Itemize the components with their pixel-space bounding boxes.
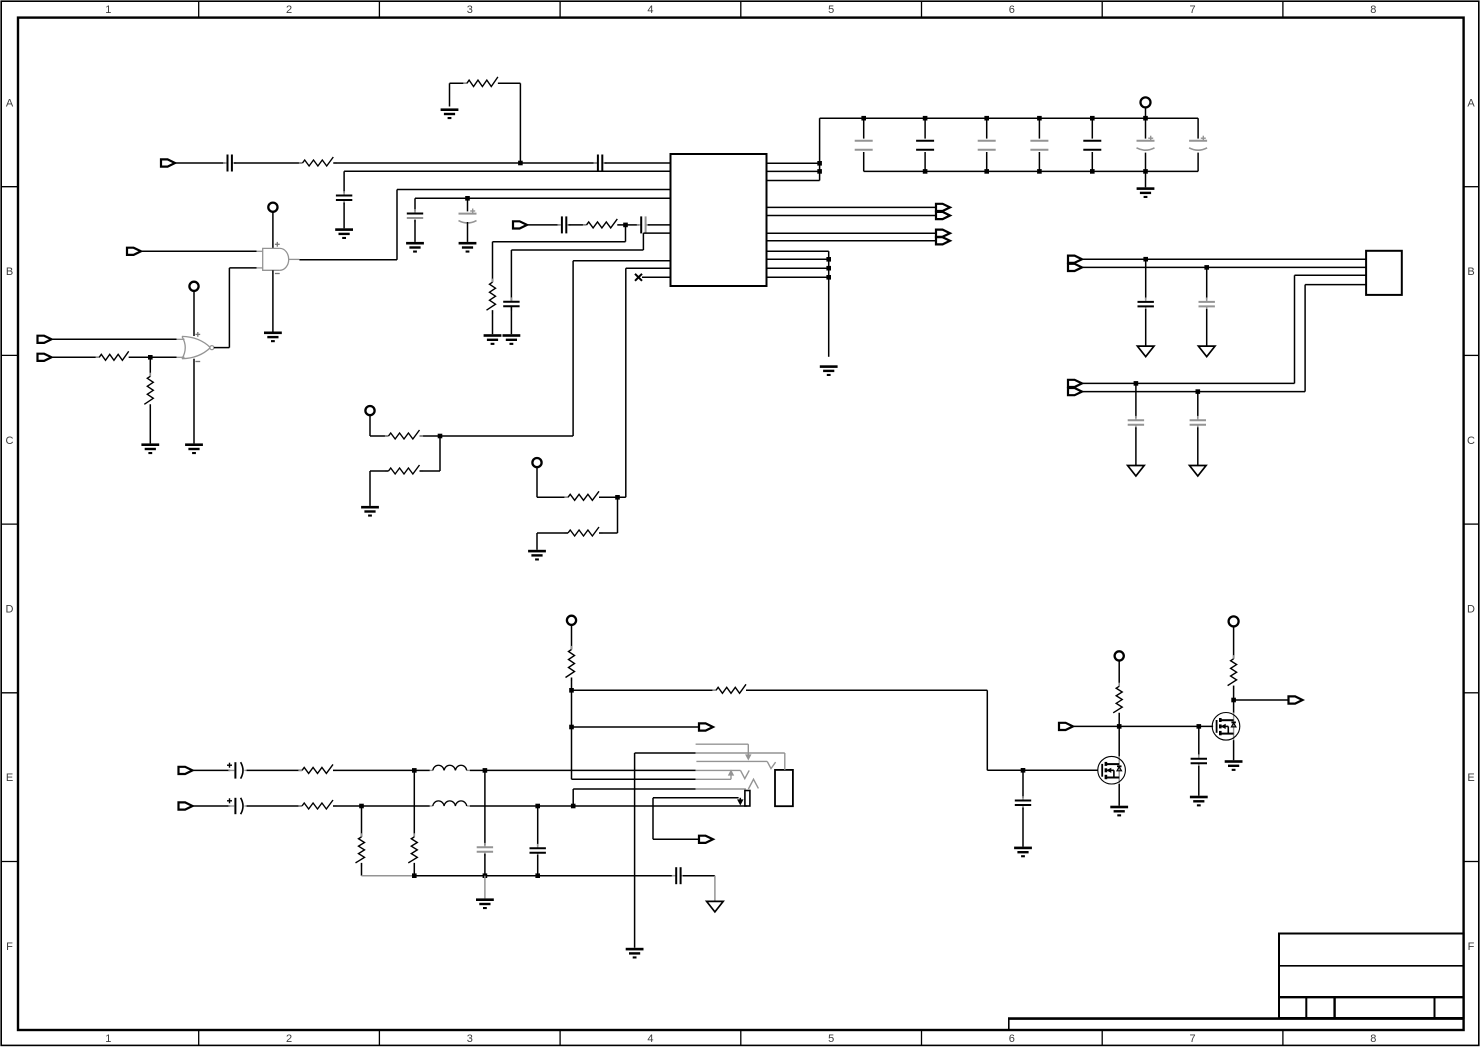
wire P2 to comparator A2	[193, 291, 195, 336]
wire L1 to jack tip	[470, 769, 696, 771]
ground under bypass rail	[1137, 187, 1155, 198]
wire C7 to U1	[648, 224, 671, 226]
wire C18 to ground	[1135, 427, 1137, 465]
capacitor C26	[1191, 754, 1207, 767]
IC U1 main codec box	[671, 154, 767, 286]
jack tip pin arrow	[696, 771, 734, 780]
ground under M1	[1110, 806, 1128, 817]
wire M2 source to ground	[1233, 740, 1235, 760]
bypass capacitor C13	[1083, 116, 1101, 174]
bypass top rail	[820, 117, 1199, 119]
power port P4	[532, 458, 541, 467]
wire P7 to R17	[1118, 661, 1120, 687]
wire node G down	[1145, 259, 1147, 299]
wire C21 to R12	[247, 805, 302, 807]
wire node O down	[571, 690, 573, 727]
wire C23 to rail	[537, 855, 539, 876]
polarized capacitor C20	[227, 762, 247, 778]
polarized capacitor C21	[227, 798, 247, 814]
bypass capacitor C10	[916, 116, 934, 174]
wire node K down	[413, 770, 415, 837]
rail junction dots	[817, 161, 822, 174]
svg-text:D: D	[6, 603, 14, 615]
node C junction	[623, 223, 628, 228]
wire detect to port J17	[653, 798, 699, 840]
inductor L2	[430, 801, 470, 806]
node F junction	[615, 495, 620, 500]
wire R9 to node F	[599, 496, 626, 498]
ground under R8	[361, 506, 379, 517]
node D junction	[148, 355, 153, 360]
capacitor C3	[336, 191, 352, 204]
capacitor C22	[477, 843, 493, 856]
resistor R17	[1113, 683, 1122, 717]
port J15 input	[179, 802, 193, 809]
svg-text:D: D	[1467, 603, 1475, 615]
wire C22 to rail	[484, 854, 486, 876]
resistor R5	[96, 351, 133, 360]
ground under C25	[1014, 847, 1032, 858]
svg-text:2: 2	[286, 1033, 292, 1045]
polarized capacitor C5	[459, 209, 477, 224]
wire J1 to C1	[175, 162, 225, 164]
wire U1 to port J7	[767, 215, 937, 217]
wire U1 pin F	[511, 233, 670, 302]
port J11 output	[1068, 264, 1082, 271]
triangle ground C19	[1190, 466, 1207, 477]
wire node N down	[537, 806, 539, 846]
resistor R11	[298, 764, 336, 773]
power port P2	[189, 282, 198, 291]
wire X1 pin3	[1082, 275, 1366, 383]
wire C6 to R3	[568, 224, 586, 226]
node K junction	[412, 768, 417, 773]
wire A1 to ground	[272, 270, 274, 331]
wire node I down	[1135, 383, 1137, 417]
wire node P to port J16	[572, 726, 700, 728]
resistor R10	[564, 527, 602, 536]
wire R16 to M1 gate	[746, 690, 1098, 770]
port J17 output	[699, 836, 713, 843]
wire C3 to ground	[343, 203, 345, 229]
resistor R16	[712, 684, 749, 693]
ground under R10	[528, 550, 546, 561]
svg-text:3: 3	[467, 1033, 473, 1045]
port J16 output	[699, 723, 713, 730]
jack sleeve contact	[696, 744, 751, 759]
wire A2 output	[214, 347, 230, 349]
svg-text:6: 6	[1009, 4, 1015, 16]
triangle ground C24	[707, 901, 724, 912]
inductor L1	[430, 765, 470, 770]
triangle ground C16	[1137, 346, 1154, 357]
wire R4 to ground	[492, 310, 494, 334]
resistor R9	[564, 491, 602, 500]
port J6 output	[936, 204, 950, 211]
port J3 input	[127, 248, 141, 255]
port J9 output	[936, 237, 950, 244]
jack tip contact pad	[745, 791, 750, 807]
svg-text:C: C	[6, 435, 14, 447]
resistor R12	[298, 800, 336, 809]
wire node U to M2 drain	[1233, 700, 1235, 713]
jack ring2 contact	[696, 761, 775, 768]
ground chain junction dots	[826, 257, 831, 280]
wire C24 to triangle ground	[683, 876, 715, 902]
resistor R2	[463, 77, 501, 87]
jack tip switch	[696, 770, 750, 778]
wire P3 down	[370, 415, 440, 436]
jack detect wire	[653, 798, 743, 805]
wire U1 pin D	[415, 198, 671, 211]
wire U1 to port J6	[767, 206, 937, 208]
resistor R7	[385, 430, 423, 439]
ground under A2	[185, 443, 203, 454]
wire M1 source to ground	[1118, 784, 1120, 806]
wire R6 to ground	[149, 404, 151, 443]
svg-text:B: B	[6, 266, 13, 278]
wire U1 to port J9	[767, 240, 937, 242]
wire R5 to A2 in-	[129, 356, 177, 358]
ground under C5	[459, 242, 477, 253]
port J18 input	[1059, 723, 1073, 730]
ground under U1 right	[820, 365, 838, 376]
node G junction	[1143, 257, 1148, 262]
power port P3	[365, 406, 374, 415]
triangle ground C17	[1198, 346, 1215, 357]
power port P5	[1141, 97, 1151, 107]
node E junction	[438, 434, 443, 439]
port J13 output	[1068, 388, 1082, 395]
power port P1	[268, 203, 277, 212]
port J12 output	[1068, 380, 1082, 387]
port J5 input	[38, 354, 52, 361]
svg-text:E: E	[6, 772, 13, 784]
resistor R18	[1228, 655, 1237, 689]
capacitor C1	[223, 155, 236, 172]
wire U1 to port J8	[767, 232, 937, 234]
wire J4 to A2 in+	[52, 338, 177, 340]
wire node O to R16	[572, 689, 717, 691]
ground under C3	[335, 228, 353, 239]
wire node B down	[467, 198, 469, 211]
svg-text:F: F	[6, 941, 13, 953]
svg-text:7: 7	[1189, 4, 1195, 16]
resistor R13	[356, 833, 365, 866]
wire U1 pin G	[440, 261, 671, 436]
wire R2 left lead	[450, 83, 467, 106]
resistor R3	[583, 219, 621, 228]
svg-text:5: 5	[828, 1033, 834, 1045]
wire rail to ground	[484, 876, 486, 899]
wire C16 to ground	[1145, 309, 1147, 346]
transistor M2	[1212, 713, 1240, 741]
wire J10 to X1	[1082, 258, 1366, 260]
capacitor C7	[637, 216, 650, 233]
wire node A to C2	[520, 162, 597, 164]
ground under R4	[484, 334, 502, 345]
wire L2 to jack ring	[470, 805, 747, 807]
wire J2 to C6	[527, 224, 560, 226]
capacitor C4	[407, 209, 423, 222]
title block base line	[1008, 1019, 1464, 1030]
port J4 input	[38, 336, 52, 343]
wire C8 to ground	[510, 306, 512, 334]
wire P8 to R18	[1233, 626, 1235, 658]
jack ring wire	[573, 779, 758, 806]
wire U1 to comparator A1 output	[299, 190, 670, 260]
wire node R down	[1022, 770, 1024, 798]
svg-text:8: 8	[1370, 4, 1376, 16]
wire J3 to A1 in+	[141, 250, 257, 252]
wire node S to M1 drain	[1118, 726, 1120, 756]
wire R8 to ground	[370, 471, 440, 506]
resistor R1	[299, 157, 337, 166]
ground under M2	[1225, 760, 1243, 771]
wire U1 pin to C3	[344, 171, 670, 193]
power port P7	[1115, 651, 1124, 660]
wire J11 to X1	[1082, 266, 1366, 268]
jack sleeve wire	[635, 753, 785, 770]
resistor R6	[144, 373, 153, 408]
ground under R6	[141, 443, 159, 454]
port J19 output	[1289, 696, 1303, 703]
svg-text:1: 1	[105, 4, 111, 16]
wire R2 to node A vertical	[498, 83, 521, 163]
node O junction	[569, 688, 574, 693]
wire node C to C7	[626, 224, 640, 226]
wire C17 to ground	[1206, 309, 1208, 346]
polarized bypass capacitor C15	[1189, 118, 1207, 171]
connector X1 box	[1366, 251, 1402, 295]
ground under C8	[503, 334, 521, 345]
wire C1 to R1	[234, 162, 303, 164]
wire P1 to comparator A1	[272, 212, 274, 249]
node U junction	[1231, 698, 1236, 703]
svg-text:5: 5	[828, 4, 834, 16]
port J2 input	[513, 221, 527, 228]
wire R12 to node M	[333, 805, 362, 807]
resistor R15	[566, 646, 575, 681]
port J7 output	[936, 212, 950, 219]
jack sleeve to ground	[634, 753, 636, 948]
capacitor C17	[1199, 298, 1215, 311]
node J junction	[1196, 389, 1201, 394]
node N junction	[535, 804, 540, 809]
power port P6	[567, 616, 576, 625]
power port P8	[1229, 616, 1239, 626]
filter ground rail	[362, 875, 673, 877]
svg-text:A: A	[1467, 97, 1475, 109]
polarized bypass capacitor C14	[1137, 116, 1155, 174]
triangle ground C18	[1128, 466, 1145, 477]
wire node U to port J19	[1234, 699, 1289, 701]
bypass capacitor C9	[855, 116, 873, 171]
capacitor C19	[1190, 416, 1206, 429]
wire A2 to ground	[193, 359, 195, 444]
bypass capacitor C11	[978, 116, 996, 174]
wire node P down	[572, 727, 696, 779]
ground under filter	[476, 898, 494, 909]
ground under A1	[264, 332, 282, 343]
wire node F down	[617, 497, 619, 533]
wire node M down	[361, 806, 363, 837]
title block row divider 2	[1279, 996, 1464, 998]
port J14 input	[179, 767, 193, 774]
capacitor C23	[530, 844, 546, 857]
wire C26 to ground	[1198, 766, 1200, 796]
wire R11 to node K	[333, 769, 414, 771]
wire node T down	[1198, 726, 1200, 756]
capacitor C24	[672, 867, 685, 884]
wire R15 to node O	[571, 678, 573, 691]
wire C25 to ground	[1022, 808, 1024, 847]
bypass capacitor C12	[1030, 116, 1048, 174]
wire X1 pin4	[1082, 285, 1366, 392]
wire node J down	[1197, 392, 1199, 418]
node B junction	[465, 196, 470, 201]
wire C19 to ground	[1197, 427, 1199, 465]
wire node C branch	[493, 225, 626, 282]
node A junction	[518, 161, 523, 166]
wire P6 to R15	[571, 625, 573, 650]
wire node L down	[484, 770, 486, 845]
svg-text:6: 6	[1009, 1033, 1015, 1045]
transistor M1	[1098, 756, 1126, 784]
wire node H down	[1206, 267, 1208, 299]
wire R17 to node S	[1118, 713, 1120, 727]
capacitor C25	[1015, 796, 1031, 809]
node Q junction	[571, 804, 576, 809]
wire U1 pin I	[642, 276, 671, 278]
wire C20 to R11	[247, 769, 302, 771]
wire node D to R6	[149, 357, 151, 376]
title block row divider 1	[1279, 965, 1464, 967]
ground under jack	[626, 948, 644, 959]
comparator A1 body	[256, 242, 300, 274]
wire J5 to R5	[52, 356, 100, 358]
svg-text:7: 7	[1189, 1033, 1195, 1045]
jack X2 body	[775, 770, 793, 806]
node M junction	[359, 804, 364, 809]
port J10 output	[1068, 256, 1082, 263]
svg-text:1: 1	[105, 1033, 111, 1045]
svg-text:A: A	[6, 97, 14, 109]
resistor R14	[408, 833, 417, 866]
wire J15 to C21	[193, 805, 231, 807]
wire C4 to ground	[414, 220, 416, 242]
node T junction	[1197, 724, 1202, 729]
wire node M to L2	[362, 805, 430, 807]
wire rail to ground	[1145, 171, 1147, 187]
wire J14 to C20	[193, 769, 231, 771]
wire P5 to rail	[1145, 107, 1147, 118]
wire P4 down	[537, 467, 568, 497]
resistor R4	[487, 279, 496, 314]
wire J18 to M2 gate	[1073, 725, 1213, 727]
node P junction	[569, 725, 574, 730]
wire C2 to U1 pin	[604, 162, 670, 164]
bypass bottom rail	[864, 170, 1198, 172]
svg-text:B: B	[1467, 266, 1474, 278]
svg-text:3: 3	[467, 4, 473, 16]
comparator A2 body	[176, 332, 214, 362]
wire node E down	[439, 436, 441, 471]
wire C5 to ground	[467, 222, 469, 242]
node S junction	[1117, 724, 1122, 729]
node R junction	[1021, 768, 1026, 773]
svg-text:C: C	[1467, 435, 1475, 447]
node I junction	[1134, 381, 1139, 386]
node H junction	[1204, 265, 1209, 270]
wire R13 to rail	[361, 863, 363, 876]
capacitor C16	[1138, 298, 1154, 311]
svg-text:8: 8	[1370, 1033, 1376, 1045]
ground under C4	[406, 242, 424, 253]
title block cell dividers	[1306, 997, 1434, 1018]
wire R10 to ground	[537, 533, 568, 550]
wire R18 to node U	[1233, 686, 1235, 700]
svg-text:2: 2	[286, 4, 292, 16]
capacitor C18	[1128, 416, 1144, 429]
wire R14 to rail	[413, 863, 415, 876]
wire R10 link	[599, 532, 618, 534]
wire U1 right pins to rail	[767, 118, 820, 180]
capacitor C2	[594, 155, 607, 172]
resistor R8	[385, 465, 423, 474]
ground under R2	[441, 108, 459, 119]
ground under C26	[1190, 796, 1208, 807]
node L junction	[483, 768, 488, 773]
port J8 output	[936, 230, 950, 237]
rail junction dots	[412, 873, 540, 878]
capacitor C8	[503, 297, 519, 310]
title block outline	[1279, 934, 1464, 1019]
svg-text:4: 4	[647, 1033, 653, 1045]
wire node K to L1	[414, 769, 430, 771]
wire A2 out to A1 in-	[229, 268, 256, 348]
svg-text:4: 4	[647, 4, 653, 16]
wire U1 ground pins	[767, 251, 829, 357]
svg-text:E: E	[1467, 772, 1474, 784]
no-connect X marker	[635, 274, 642, 281]
wire R3 to node C	[617, 224, 625, 226]
wire U1 pin H	[626, 268, 671, 497]
svg-text:F: F	[1468, 941, 1475, 953]
capacitor C6	[558, 216, 571, 233]
wire R1 to node A	[333, 162, 520, 164]
port J1 input	[161, 159, 175, 166]
